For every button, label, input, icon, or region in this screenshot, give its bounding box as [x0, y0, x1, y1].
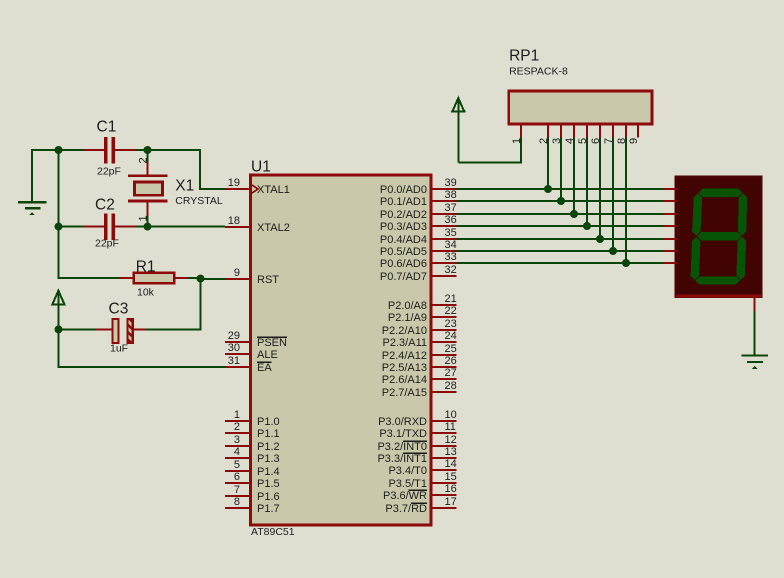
- svg-text:9: 9: [628, 138, 640, 144]
- svg-text:P1.5: P1.5: [257, 478, 280, 490]
- RP1 pin 7: [603, 124, 615, 144]
- svg-text:C1: C1: [97, 119, 117, 136]
- U1 pin 33 (P0.6/AD6): [380, 251, 457, 270]
- svg-text:14: 14: [445, 458, 457, 470]
- svg-text:P3.3/INT1: P3.3/INT1: [377, 453, 427, 465]
- svg-text:P3.0/RXD: P3.0/RXD: [378, 416, 427, 428]
- svg-text:P2.6/A14: P2.6/A14: [382, 374, 427, 386]
- U1 pin 36 (P0.3/AD3): [380, 214, 457, 233]
- svg-text:P3.1/TXD: P3.1/TXD: [379, 428, 427, 440]
- U1 pin 3 (P1.2): [225, 434, 280, 453]
- U1 pin 12 (P3.2/INT0): [377, 434, 456, 453]
- RP1 pin 9: [628, 124, 640, 144]
- svg-text:RESPACK-8: RESPACK-8: [509, 66, 568, 78]
- 7-segment display body: [675, 177, 761, 297]
- svg-text:1: 1: [137, 215, 149, 221]
- wire display to ground: [754, 311, 756, 355]
- RP1 pin 6: [590, 124, 602, 144]
- wire P0.2 bus row to display: [457, 213, 665, 215]
- svg-text:22: 22: [445, 305, 457, 317]
- svg-text:P1.2: P1.2: [257, 441, 280, 453]
- svg-text:16: 16: [445, 483, 457, 495]
- svg-text:17: 17: [445, 496, 457, 508]
- svg-text:19: 19: [228, 177, 240, 189]
- svg-text:C2: C2: [95, 196, 115, 213]
- U1 pin 6 (P1.5): [225, 471, 280, 490]
- U1 pin 14 (P3.4/T0): [388, 458, 456, 477]
- U1 pin 35 (P0.4/AD4): [380, 227, 457, 246]
- U1 pin 34 (P0.5/AD5): [380, 239, 457, 258]
- wire VCC to RP1 pin 1: [458, 138, 521, 163]
- U1 pin 23 (P2.2/A10): [382, 318, 457, 337]
- svg-text:22pF: 22pF: [95, 238, 119, 250]
- wire P0.1 bus row to display: [457, 200, 665, 202]
- svg-text:26: 26: [445, 355, 457, 367]
- ground (display): [741, 356, 768, 370]
- wire RP1 pin 8 down to P0.6 row: [625, 138, 627, 264]
- U1 pin 25 (P2.4/A12): [382, 343, 457, 362]
- svg-text:P0.1/AD1: P0.1/AD1: [380, 196, 427, 208]
- U1 pin 2 (P1.1): [225, 421, 280, 440]
- wire node to RST pin: [201, 278, 226, 280]
- svg-text:28: 28: [445, 380, 457, 392]
- node: RP1 pin 5 / P0.3 junction: [583, 222, 591, 230]
- svg-text:P2.0/A8: P2.0/A8: [388, 300, 427, 312]
- U1 pin 19 (XTAL1): [225, 177, 290, 196]
- svg-text:33: 33: [445, 251, 457, 263]
- svg-text:22pF: 22pF: [97, 165, 121, 177]
- node: RP1 pin 6 / P0.4 junction: [596, 235, 604, 243]
- svg-text:38: 38: [445, 189, 457, 201]
- display pin stub row 39: [663, 188, 677, 190]
- svg-text:12: 12: [445, 434, 457, 446]
- U1 pin 17 (P3.7/RD): [385, 496, 456, 515]
- svg-text:6: 6: [234, 471, 240, 483]
- svg-text:4: 4: [234, 446, 240, 458]
- U1 pin 24 (P2.3/A11): [383, 330, 457, 349]
- node: RP1 pin 8 / P0.6 junction: [622, 259, 630, 267]
- svg-text:13: 13: [445, 446, 457, 458]
- crystal X1: [128, 151, 223, 227]
- display pin stub row 34: [663, 250, 677, 252]
- wire P0.3 bus row to display: [457, 225, 665, 227]
- capacitor C1 (22pF): [84, 119, 137, 178]
- svg-text:1uF: 1uF: [110, 342, 128, 354]
- display segment b (top-right): [738, 193, 747, 236]
- IC U1 (AT89C51 microcontroller): [251, 159, 432, 539]
- U1 pin 18 (XTAL2): [225, 215, 290, 234]
- ground (left): [18, 149, 47, 215]
- svg-text:C3: C3: [109, 301, 129, 318]
- U1 pin 11 (P3.1/TXD): [379, 421, 456, 440]
- RP1 pin 5: [577, 124, 589, 144]
- svg-text:5: 5: [234, 459, 240, 471]
- U1 pin 38 (P0.1/AD1): [380, 189, 457, 208]
- svg-text:RST: RST: [257, 274, 279, 286]
- RP1 pin 8: [616, 124, 628, 144]
- node: RP1 pin 7 / P0.5 junction: [609, 247, 617, 255]
- svg-text:36: 36: [445, 214, 457, 226]
- svg-text:P1.4: P1.4: [257, 466, 280, 478]
- RP1 pin 1: [511, 124, 523, 144]
- U1 pin 8 (P1.7): [225, 496, 280, 515]
- svg-text:37: 37: [445, 202, 457, 214]
- svg-text:30: 30: [228, 342, 240, 354]
- svg-text:P3.4/T0: P3.4/T0: [388, 465, 427, 477]
- wire RP1 pin 7 down to P0.5 row: [612, 138, 614, 252]
- svg-text:P2.7/A15: P2.7/A15: [382, 387, 427, 399]
- svg-text:P0.2/AD2: P0.2/AD2: [380, 209, 427, 221]
- svg-text:XTAL1: XTAL1: [257, 184, 290, 196]
- svg-text:39: 39: [445, 177, 457, 189]
- U1 pin 22 (P2.1/A9): [388, 305, 457, 324]
- svg-text:P2.3/A11: P2.3/A11: [383, 337, 427, 349]
- wire VCC node to EA pin: [59, 329, 226, 367]
- wire C1 to node XTAL1: [136, 149, 148, 151]
- display segment g (middle): [697, 232, 742, 240]
- svg-text:X1: X1: [175, 178, 194, 195]
- svg-text:3: 3: [234, 434, 240, 446]
- svg-text:24: 24: [445, 330, 457, 342]
- svg-text:32: 32: [445, 264, 457, 276]
- U1 pin 21 (P2.0/A8): [388, 293, 457, 312]
- wire P0.5 bus row to display: [457, 250, 665, 252]
- svg-text:25: 25: [445, 343, 457, 355]
- svg-text:2: 2: [234, 421, 240, 433]
- svg-text:P0.5/AD5: P0.5/AD5: [380, 246, 427, 258]
- svg-text:CRYSTAL: CRYSTAL: [175, 195, 223, 207]
- RP1 pin 2: [538, 124, 550, 144]
- svg-text:1: 1: [234, 409, 240, 421]
- svg-text:RP1: RP1: [509, 47, 539, 64]
- display common cathode pin: [754, 297, 756, 311]
- svg-text:P1.1: P1.1: [257, 428, 280, 440]
- wire node to XTAL1 pin: [148, 150, 226, 189]
- display pin stub row 38: [663, 200, 677, 202]
- node: RP1 pin 3 / P0.1 junction: [557, 197, 565, 205]
- svg-text:P0.0/AD0: P0.0/AD0: [380, 184, 427, 196]
- display segment f (top-left): [692, 193, 702, 236]
- svg-text:7: 7: [234, 484, 240, 496]
- display segment d (bottom): [695, 276, 740, 284]
- U1 pin 4 (P1.3): [225, 446, 280, 465]
- svg-text:21: 21: [445, 293, 457, 305]
- display segment a (top): [699, 189, 743, 197]
- RP1 pin 4: [564, 124, 576, 144]
- power VCC arrow (RP1): [451, 98, 465, 163]
- svg-text:EA: EA: [257, 362, 272, 374]
- wire R1 to RST node: [188, 277, 201, 279]
- display pin stub row 33: [663, 262, 677, 264]
- U1 pin 1 (P1.0): [225, 409, 280, 428]
- U1 pin 15 (P3.5/T1): [388, 471, 456, 490]
- svg-text:35: 35: [445, 227, 457, 239]
- wire RP1 pin 4 down to P0.2 row: [573, 138, 575, 215]
- node: VCC / C3 / EA junction: [55, 325, 63, 333]
- U1 pin 31 (EA): [225, 355, 272, 374]
- svg-text:15: 15: [445, 471, 457, 483]
- svg-text:PSEN: PSEN: [257, 337, 287, 349]
- display pin stub row 35: [663, 238, 677, 240]
- svg-text:10: 10: [445, 409, 457, 421]
- U1 pin 13 (P3.3/INT1): [377, 446, 456, 465]
- svg-text:U1: U1: [251, 159, 271, 176]
- capacitor C2 (22pF): [59, 196, 137, 249]
- U1 pin 9 (RST): [225, 267, 279, 286]
- svg-text:P3.7/RD: P3.7/RD: [385, 503, 427, 515]
- capacitor C3 (1uF, polarized): [59, 301, 147, 355]
- U1 pin 37 (P0.2/AD2): [380, 202, 457, 221]
- wire C2 to X1.1 node: [136, 226, 148, 228]
- svg-text:9: 9: [234, 267, 240, 279]
- U1 pin 16 (P3.6/WR): [383, 483, 457, 502]
- U1 pin 39 (P0.0/AD0): [380, 177, 457, 196]
- wire RP1 pin 5 down to P0.3 row: [586, 138, 588, 227]
- svg-text:P1.3: P1.3: [257, 453, 280, 465]
- node: vertical rail junction on C1 row: [55, 146, 63, 154]
- svg-text:XTAL2: XTAL2: [257, 222, 290, 234]
- svg-text:P3.6/WR: P3.6/WR: [383, 490, 427, 502]
- U1 pin 10 (P3.0/RXD): [378, 409, 457, 428]
- node: C1 / X1.2 junction: [144, 146, 152, 154]
- svg-text:P3.2/INT0: P3.2/INT0: [377, 441, 427, 453]
- resistor R1 (10k): [120, 259, 188, 299]
- RP1 pin 3: [551, 124, 563, 144]
- svg-text:10k: 10k: [137, 287, 155, 299]
- U1 pin 28 (P2.7/A15): [382, 380, 457, 399]
- U1 pin 5 (P1.4): [225, 459, 280, 478]
- display segment e (bottom-left): [691, 237, 701, 280]
- U1 pin 32 (P0.7/AD7): [380, 264, 457, 283]
- wire RP1 pin 2 down to P0.0 row: [547, 138, 549, 190]
- node: RP1 pin 4 / P0.2 junction: [570, 210, 578, 218]
- U1 pin 27 (P2.6/A14): [382, 367, 457, 386]
- node: rail / C2 row junction: [55, 223, 63, 231]
- svg-text:18: 18: [228, 215, 240, 227]
- svg-text:R1: R1: [136, 259, 156, 276]
- svg-text:P2.1/A9: P2.1/A9: [388, 312, 427, 324]
- svg-text:31: 31: [228, 355, 240, 367]
- svg-text:27: 27: [445, 367, 457, 379]
- wire RP1 pin 6 down to P0.4 row: [599, 138, 601, 240]
- U1 pin 7 (P1.6): [225, 484, 280, 503]
- U1 pin 29 (PSEN): [225, 330, 287, 349]
- U1 XTAL1 clock designator: [252, 185, 258, 193]
- svg-text:P0.6/AD6: P0.6/AD6: [380, 258, 427, 270]
- svg-text:P2.2/A10: P2.2/A10: [382, 325, 427, 337]
- U1 pin 30 (ALE): [225, 342, 278, 361]
- svg-text:29: 29: [228, 330, 240, 342]
- svg-text:P1.6: P1.6: [257, 491, 280, 503]
- svg-text:P0.4/AD4: P0.4/AD4: [380, 234, 427, 246]
- node: C2 / X1.1 junction: [144, 223, 152, 231]
- wire P0.4 bus row to display: [457, 238, 665, 240]
- svg-text:11: 11: [445, 421, 456, 433]
- wire P0.6 bus row to display: [457, 262, 665, 264]
- wire C3 to RST node: [146, 279, 201, 329]
- wire RP1 pin 3 down to P0.1 row: [560, 138, 562, 202]
- svg-text:AT89C51: AT89C51: [251, 526, 295, 538]
- power VCC arrow (left): [51, 291, 65, 330]
- svg-text:P0.3/AD3: P0.3/AD3: [380, 221, 427, 233]
- svg-text:23: 23: [445, 318, 457, 330]
- node: RP1 pin 2 / P0.0 junction: [544, 185, 552, 193]
- wire rail C1-row to C2-row to R1-row: [59, 150, 121, 278]
- svg-text:P2.4/A12: P2.4/A12: [382, 350, 427, 362]
- svg-text:34: 34: [445, 239, 457, 251]
- svg-text:ALE: ALE: [257, 349, 278, 361]
- display pin stub row 37: [663, 213, 677, 215]
- svg-text:P0.7/AD7: P0.7/AD7: [380, 271, 427, 283]
- svg-text:8: 8: [234, 496, 240, 508]
- node: R1 / C3 / RST junction: [197, 275, 205, 283]
- wire P0.0 bus row to display: [457, 188, 665, 190]
- svg-text:P3.5/T1: P3.5/T1: [388, 478, 427, 490]
- svg-text:P1.7: P1.7: [257, 503, 280, 515]
- svg-text:P1.0: P1.0: [257, 416, 280, 428]
- wire gnd to C1 row: [31, 149, 85, 151]
- resistor pack RP1 (RESPACK-8): [509, 47, 652, 124]
- display pin stub row 36: [663, 225, 677, 227]
- wire node to XTAL2 pin: [148, 226, 226, 228]
- svg-text:2: 2: [137, 157, 149, 163]
- display segment c (bottom-right): [736, 237, 746, 280]
- U1 pin 26 (P2.5/A13): [382, 355, 457, 374]
- svg-text:P2.5/A13: P2.5/A13: [382, 362, 427, 374]
